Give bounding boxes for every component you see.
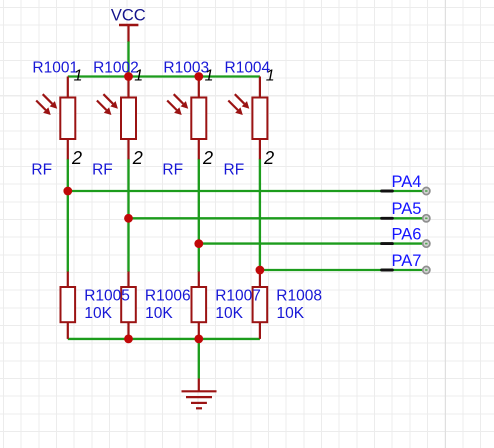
svg-text:PA6: PA6 [392,225,422,243]
svg-text:R1004: R1004 [225,59,271,76]
svg-text:1: 1 [266,68,275,85]
svg-text:PA4: PA4 [392,173,422,191]
svg-text:PA5: PA5 [392,200,422,218]
svg-text:1: 1 [74,68,83,85]
svg-text:R1008: R1008 [276,288,322,305]
svg-text:PA7: PA7 [392,252,422,270]
svg-text:2: 2 [132,148,143,168]
svg-text:R1003: R1003 [163,59,209,76]
svg-text:2: 2 [263,148,274,168]
svg-text:R1002: R1002 [93,59,139,76]
svg-text:10K: 10K [84,305,112,322]
svg-text:10K: 10K [145,305,173,322]
svg-text:R1007: R1007 [215,288,261,305]
svg-text:RF: RF [31,161,52,178]
svg-text:VCC: VCC [111,7,146,25]
svg-text:10K: 10K [277,305,305,322]
svg-text:1: 1 [134,68,143,85]
svg-text:2: 2 [202,148,213,168]
svg-text:RF: RF [224,161,245,178]
svg-text:1: 1 [205,68,214,85]
svg-text:R1001: R1001 [32,59,78,76]
svg-text:R1006: R1006 [145,288,191,305]
svg-text:RF: RF [162,161,183,178]
svg-text:10K: 10K [215,305,243,322]
svg-text:R1005: R1005 [84,288,130,305]
svg-text:RF: RF [92,161,113,178]
svg-text:2: 2 [71,148,82,168]
